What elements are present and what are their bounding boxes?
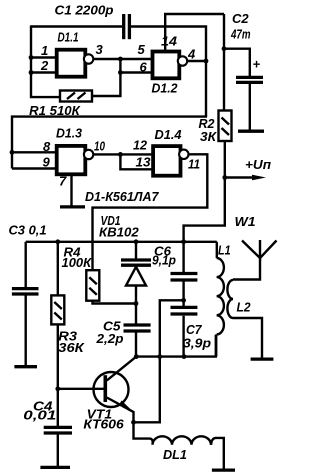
capacitor C7 (171, 300, 212, 356)
resistor R1 (29, 91, 92, 118)
wire supply column down to R2 (223, 14, 225, 111)
varicap VD1 (121, 242, 151, 304)
svg-text:L1: L1 (218, 243, 231, 258)
svg-text:12: 12 (133, 138, 148, 153)
svg-text:D1.4: D1.4 (155, 127, 183, 142)
wire base (58, 388, 104, 390)
wire pin8 (12, 151, 56, 153)
svg-text:8: 8 (43, 139, 51, 154)
node dot C5 bottom (134, 354, 139, 359)
node dot pin12 junction (118, 152, 123, 157)
node dot feedback top (118, 57, 123, 62)
capacitor C4 (23, 389, 72, 466)
wire collector row (136, 335, 216, 357)
node dot VD1 top (134, 239, 139, 244)
svg-text:1: 1 (41, 43, 48, 58)
svg-text:100К: 100К (62, 255, 93, 270)
wire D1.1 output to D1.2 pin5 (94, 58, 152, 60)
wire pin14 up and right (165, 14, 224, 50)
capacitor C3 (9, 223, 47, 366)
svg-text:10: 10 (94, 139, 106, 154)
svg-text:D1-К561ЛА7: D1-К561ЛА7 (85, 189, 159, 204)
inductor L2 (227, 280, 251, 318)
svg-text:КТ606: КТ606 (83, 417, 124, 432)
node dot VD1 bottom (134, 301, 139, 306)
ground pin7 (60, 205, 85, 208)
wire pin1 (31, 56, 56, 58)
node dot pin8 (10, 150, 15, 155)
ground DL1 (212, 468, 235, 471)
svg-text:13: 13 (136, 155, 152, 170)
svg-text:36К: 36К (58, 340, 85, 355)
wire feedback row to left column (12, 117, 207, 169)
wire pin2 (31, 71, 56, 73)
transistor Q1 VT1 (83, 357, 136, 432)
gate D1.2 (138, 34, 197, 96)
svg-text:3: 3 (96, 42, 104, 57)
node dot D1.2 out x C1 (204, 59, 209, 64)
gate D1.4 (133, 127, 200, 176)
ground C3 (14, 365, 37, 368)
svg-text:14: 14 (161, 34, 178, 49)
node dot L1/C6 (181, 239, 186, 244)
gate D1.3 (43, 126, 106, 189)
wire C2 branch (224, 49, 250, 77)
antenna W1 (233, 214, 277, 280)
svg-text:0,01: 0,01 (23, 408, 56, 423)
wire R4 bottom to VD1 bottom node (93, 301, 137, 304)
svg-text:2: 2 (40, 58, 49, 73)
wire L2 bottom to ground (233, 318, 262, 358)
wire D1.4 out down and left to R4 (93, 154, 208, 270)
svg-text:3К: 3К (200, 129, 217, 144)
resistor R2 (199, 111, 232, 145)
node dot left pin1 (29, 55, 34, 60)
svg-text:4: 4 (187, 47, 196, 62)
capacitor C6 (152, 242, 197, 300)
wire C1 right to corner down to D1.2 output node (131, 27, 206, 117)
inductor DL1 (153, 436, 224, 469)
svg-text:6: 6 (140, 60, 148, 75)
wire pin9 (12, 167, 56, 169)
capacitor C2 electrolytic (230, 11, 264, 131)
node dot C7 bottom (182, 354, 187, 359)
svg-text:КВ102: КВ102 (99, 225, 139, 240)
node dot feedback pin6 (118, 70, 123, 75)
gate D1.1 (40, 30, 104, 77)
svg-text:C2: C2 (232, 11, 249, 26)
svg-text:D1.3: D1.3 (56, 126, 83, 141)
wire tap to emitter column (134, 300, 184, 422)
node dot C6/C7 tap (181, 298, 186, 303)
inductor L1 (216, 242, 230, 357)
svg-text:DL1: DL1 (163, 447, 187, 462)
svg-text:C3 0,1: C3 0,1 (9, 223, 47, 238)
node dot R3 top (55, 239, 60, 244)
svg-text:11: 11 (188, 157, 200, 172)
svg-text:+: + (253, 57, 261, 72)
resistor R4 (62, 245, 100, 301)
svg-text:C1 2200p: C1 2200p (55, 3, 114, 18)
ground C4 (40, 466, 70, 469)
svg-text:3,9p: 3,9p (183, 336, 211, 351)
svg-text:D1.2: D1.2 (152, 81, 179, 96)
svg-text:R1 510К: R1 510К (29, 103, 81, 118)
wire R2 bottom through +Un node down-left to tank node (184, 141, 225, 242)
node dot +Un (222, 175, 227, 180)
wire pin13 (120, 154, 153, 169)
resistor R3 (51, 242, 85, 389)
svg-text:9: 9 (43, 155, 51, 170)
svg-text:2,2p: 2,2p (95, 331, 123, 346)
svg-text:7: 7 (59, 174, 67, 189)
capacitor C5 (95, 304, 150, 357)
wire D1.3 out to D1.4 pin12 (94, 153, 153, 155)
wire emitter down to DL1 (134, 422, 153, 443)
svg-text:L2: L2 (237, 300, 252, 315)
node dot C2 branch (222, 46, 227, 51)
node dot left pin2 (29, 70, 34, 75)
node dot tap crossing (157, 354, 162, 359)
wire pin6 (120, 71, 152, 73)
wire top-left horizontal to C1 (31, 25, 122, 27)
capacitor C1 (55, 3, 130, 40)
svg-text:47m: 47m (230, 27, 251, 42)
ground L2 (251, 357, 274, 360)
wire R1 right lead up to output node (92, 59, 120, 96)
svg-text:+Uп: +Uп (245, 157, 271, 172)
wire D1.2 output (187, 60, 207, 62)
svg-text:9,1p: 9,1p (152, 253, 176, 268)
node dot base (55, 386, 60, 391)
wire pin7 ground lead (70, 176, 72, 206)
wire left column (31, 25, 60, 97)
svg-text:5: 5 (138, 42, 146, 57)
node dot emitter (131, 420, 136, 425)
svg-text:W1: W1 (235, 214, 256, 229)
svg-text:D1.1: D1.1 (58, 30, 79, 45)
wire tank node row (26, 241, 217, 243)
+Un arrow (225, 157, 271, 180)
